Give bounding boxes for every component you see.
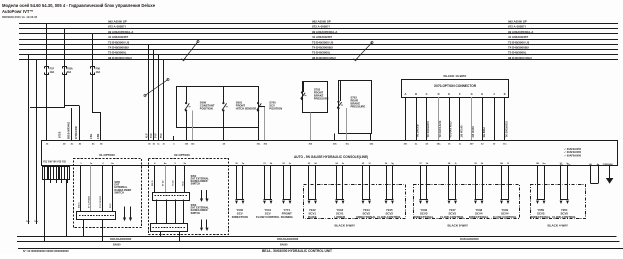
svg-text:POSITION: POSITION bbox=[269, 107, 282, 111]
wire S091 to console bbox=[223, 111, 225, 140]
svg-text:972 A-00087 I: 972 A-00087 I bbox=[508, 25, 526, 29]
ground symbol right bbox=[609, 166, 611, 178]
X2 mid wire x183.7 bbox=[183, 200, 185, 224]
svg-text:X2-OPTION: X2-OPTION bbox=[174, 153, 190, 157]
wire drop cluster x158 bbox=[158, 55, 160, 141]
svg-text:3B: 3B bbox=[536, 163, 539, 165]
wire S702 down bbox=[302, 100, 304, 113]
svg-text:34b: 34b bbox=[369, 142, 373, 145]
svg-text:PRESSURE: PRESSURE bbox=[351, 105, 366, 109]
jog S700 to aux bbox=[258, 106, 265, 108]
footer separator bbox=[18, 248, 623, 250]
X2 mid wire x175.9 bbox=[175, 200, 177, 224]
X2 lower return arrow x207.0 bbox=[206, 220, 208, 228]
svg-text:10A: 10A bbox=[50, 71, 55, 74]
bus wire 5 (T3 D40/3000 U3) bbox=[19, 44, 618, 46]
connector group box BLACK 8-WAY at x413 bbox=[414, 185, 520, 219]
X2 wire to ground rail 2 bbox=[179, 231, 181, 241]
wire jog y108 left bbox=[30, 107, 64, 109]
svg-text:98 D40/3000 MGV: 98 D40/3000 MGV bbox=[312, 56, 336, 60]
X1 return arrow x124.5 bbox=[124, 207, 126, 218]
wire drop x28 from bus 7 to ground rail bbox=[28, 55, 30, 224]
connector group box BLACK 8-WAY at x303 bbox=[304, 185, 406, 219]
svg-text:T5 F: T5 F bbox=[161, 133, 163, 138]
svg-text:10A: 10A bbox=[96, 71, 101, 74]
X1 wire x91 bbox=[90, 166, 92, 212]
svg-text:X070-OPTION CONNECTOR: X070-OPTION CONNECTOR bbox=[434, 84, 477, 88]
svg-text:T4 D: T4 D bbox=[181, 181, 184, 186]
wire feed x64 bus2 to junction bbox=[64, 29, 66, 108]
cell stub 1 bbox=[44, 179, 46, 183]
svg-text:✓ 00AF0A0/00: ✓ 00AF0A0/00 bbox=[564, 154, 582, 157]
bus wire 4 (41 A00A00/307) bbox=[19, 39, 618, 41]
wire S700 to console bbox=[258, 111, 260, 140]
fuse F03A bbox=[63, 67, 67, 75]
X2 upper wire x154.7 bbox=[154, 166, 156, 193]
svg-text:992 A0505 SP: 992 A0505 SP bbox=[508, 20, 527, 24]
svg-text:41 A00A00/307: 41 A00A00/307 bbox=[312, 35, 333, 39]
svg-text:T5 D40/3000L: T5 D40/3000L bbox=[108, 51, 127, 55]
svg-text:D: D bbox=[438, 92, 440, 96]
svg-text:992 A0505 SP: 992 A0505 SP bbox=[312, 20, 331, 24]
svg-text:T4 C: T4 C bbox=[109, 203, 112, 208]
X2 lower return arrow x201.5 bbox=[201, 220, 203, 228]
cell stub 3 bbox=[56, 179, 58, 183]
stub pin x174 bbox=[173, 136, 175, 141]
svg-text:00-BAA000/0000: 00-BAA000/0000 bbox=[460, 238, 479, 241]
svg-text:SWITCH: SWITCH bbox=[191, 183, 201, 186]
gray wire S090 aux bbox=[192, 111, 194, 141]
connector group box BLACK 4-WAY at x531 bbox=[531, 185, 586, 219]
wire drop x36 from bus 8 to ground rail bbox=[36, 60, 38, 224]
svg-text:40 D4A/F A003: 40 D4A/F A003 bbox=[450, 121, 453, 138]
svg-text:T4 D40/3000BU: T4 D40/3000BU bbox=[312, 46, 333, 50]
svg-text:T40 D40/3 A003: T40 D40/3 A003 bbox=[439, 120, 442, 137]
wire S703 down bbox=[338, 109, 340, 133]
svg-text:12b: 12b bbox=[191, 143, 195, 145]
svg-text:X1-OPTION: X1-OPTION bbox=[99, 153, 115, 157]
svg-text:41 A00A00/307: 41 A00A00/307 bbox=[508, 35, 529, 39]
svg-text:T3 F: T3 F bbox=[151, 133, 153, 138]
X2 upper wire x175.1 bbox=[175, 166, 177, 193]
svg-text:RW29930,0000 1A -19-06-06: RW29930,0000 1A -19-06-06 bbox=[2, 15, 38, 19]
right end jumper loop bbox=[590, 166, 592, 184]
svg-text:4 Bb: 4 Bb bbox=[97, 133, 100, 139]
wire into S702 from box top bbox=[303, 81, 305, 92]
svg-text:972 B: 972 B bbox=[59, 131, 62, 138]
wire drop x101 to console bbox=[100, 113, 102, 141]
fuse F07 bbox=[45, 67, 49, 75]
svg-text:T40 D403/A003: T40 D403/A003 bbox=[427, 121, 430, 138]
cell stub 5 bbox=[67, 179, 69, 183]
band left cell 4 bbox=[60, 167, 65, 180]
X1 wire x81 bbox=[80, 166, 82, 212]
svg-text:Модели осей 54.60 54.30, 005 4: Модели осей 54.60 54.30, 005 4 - Гидравл… bbox=[2, 3, 156, 8]
box enclosing S702 bbox=[303, 82, 328, 113]
svg-text:SWITCH: SWITCH bbox=[114, 191, 124, 194]
ground rail wire 1 bbox=[17, 236, 617, 238]
svg-text:T3 C1/C302: T3 C1/C302 bbox=[100, 195, 102, 208]
X1 wire x103 bbox=[102, 166, 104, 212]
wire feed x47 bus1 to console bbox=[46, 24, 48, 141]
wire jog x93 to x101 bbox=[93, 112, 101, 114]
svg-text:0000-BAA000/0000: 0000-BAA000/0000 bbox=[110, 238, 132, 241]
wire S090 to console bbox=[186, 111, 188, 140]
svg-text:99 A00A005/30A-A: 99 A00A005/30A-A bbox=[312, 30, 338, 34]
svg-text:10b: 10b bbox=[34, 221, 38, 223]
bus wire 6 (T4 D40/3000BU) bbox=[19, 49, 618, 51]
svg-text:BLACK 8-WAY: BLACK 8-WAY bbox=[448, 224, 469, 228]
svg-text:RAISING: RAISING bbox=[281, 215, 294, 219]
wire into S703 from box top bbox=[340, 80, 342, 101]
box enclosing S703 bbox=[339, 81, 372, 134]
X2 upper return arrow x207.0 bbox=[206, 190, 208, 199]
svg-text:3m: 3m bbox=[542, 163, 545, 165]
switch S700 bbox=[257, 102, 263, 111]
svg-text:30b: 30b bbox=[333, 143, 337, 145]
wire into S091 from box top pin bbox=[223, 87, 225, 103]
fuse F06 bbox=[91, 67, 95, 75]
svg-text:C: C bbox=[426, 92, 428, 96]
svg-text:B: B bbox=[415, 92, 417, 96]
wire drop cluster x163 bbox=[163, 60, 165, 141]
svg-text:3f: 3f bbox=[369, 163, 371, 165]
cell stub 2 bbox=[50, 179, 52, 183]
wire drop x71 to console bbox=[71, 108, 73, 141]
hydraulic console band box bbox=[42, 141, 618, 166]
svg-text:FLOW CONTROL: FLOW CONTROL bbox=[256, 215, 280, 219]
jumper diagonal J1 on bus bbox=[184, 42, 199, 61]
svg-text:992 A0505 SP: 992 A0505 SP bbox=[108, 20, 127, 24]
svg-text:T4 D40/3000BU: T4 D40/3000BU bbox=[108, 46, 129, 50]
X2 upper return arrow x201.5 bbox=[201, 190, 203, 199]
svg-text:POSITION: POSITION bbox=[200, 107, 213, 111]
svg-text:0000-BAA000/0000: 0000-BAA000/0000 bbox=[277, 238, 299, 241]
svg-text:BLACK 8-WAY: BLACK 8-WAY bbox=[335, 224, 356, 228]
svg-text:BA000: BA000 bbox=[280, 243, 288, 246]
svg-text:T5 D40/3000L: T5 D40/3000L bbox=[312, 51, 331, 55]
svg-text:K: K bbox=[504, 92, 506, 96]
svg-text:PRESSURE: PRESSURE bbox=[314, 97, 329, 101]
svg-text:E: E bbox=[448, 92, 450, 96]
svg-text:Y01 Y06 Y04 Y03 Y02: Y01 Y06 Y04 Y03 Y02 bbox=[43, 161, 67, 164]
X1 wire to ground rail 2 bbox=[102, 220, 104, 242]
svg-text:T40 D403/A003: T40 D403/A003 bbox=[505, 121, 508, 138]
svg-text:N°: 00 0000000000 00000 00000: N°: 00 0000000000 00000 0000000000 bbox=[23, 249, 69, 253]
svg-text:4 Ba: 4 Ba bbox=[90, 133, 93, 139]
jumper diagonal J2 below bus bbox=[145, 80, 168, 96]
wire from cell1 to ground rail bbox=[44, 179, 46, 242]
svg-text:T4 F: T4 F bbox=[154, 133, 157, 138]
X2 upper wire x184.8 bbox=[184, 166, 186, 193]
svg-text:99 A00A005/30A-A: 99 A00A005/30A-A bbox=[508, 30, 534, 34]
X2 upper wire x165.1 bbox=[165, 166, 167, 193]
X2 mid wire x166.3 bbox=[166, 200, 168, 224]
ground rail wire 2 bbox=[17, 241, 620, 243]
svg-text:1-B 4F2-A5: 1-B 4F2-A5 bbox=[460, 125, 463, 138]
jumper diagonal J3 on bus bbox=[356, 43, 373, 61]
svg-text:BLACK 10-WAY: BLACK 10-WAY bbox=[444, 74, 468, 78]
switch S091 bbox=[222, 102, 228, 111]
svg-text:98 D40/3000 MGV: 98 D40/3000 MGV bbox=[108, 56, 132, 60]
bus wire 3 (99 A00A005/30A-A) bbox=[19, 33, 618, 35]
wire from cell5 to ground rail bbox=[66, 179, 68, 236]
X2 mid wire x156.6 bbox=[156, 200, 158, 224]
svg-text:97 C-F03A2: 97 C-F03A2 bbox=[88, 195, 91, 208]
wire drop cluster x153 bbox=[153, 50, 155, 141]
svg-text:AutoPowr IVT™: AutoPowr IVT™ bbox=[2, 9, 34, 14]
wire S703 box right to console bbox=[370, 133, 372, 140]
svg-text:AUTO - 5N GAUGE HYDRAULIC CONS: AUTO - 5N GAUGE HYDRAULIC CONSOLE(LINE) bbox=[294, 155, 368, 159]
gray wire below S703 bbox=[346, 108, 348, 141]
band left cell 2 bbox=[49, 167, 54, 180]
X1 connector strip bbox=[77, 212, 116, 220]
svg-text:T3 D40/3000 U3: T3 D40/3000 U3 bbox=[508, 40, 530, 44]
gray wire S700 aux bbox=[264, 107, 266, 141]
X1 wire to ground rail 1 bbox=[83, 220, 85, 236]
svg-text:G: G bbox=[471, 92, 473, 96]
svg-text:97 B1/C302: 97 B1/C302 bbox=[75, 126, 78, 139]
svg-text:T3 D40/3000 U3: T3 D40/3000 U3 bbox=[312, 40, 334, 44]
svg-text:97 D2: 97 D2 bbox=[163, 180, 165, 186]
svg-text:T4 D40/3000BU: T4 D40/3000BU bbox=[508, 46, 529, 50]
connector X070 box bbox=[402, 80, 509, 98]
bus wire 8 (98 D40/3000 MGV) bbox=[19, 59, 618, 61]
svg-text:3A: 3A bbox=[500, 162, 503, 165]
gray wire below S702 bbox=[310, 112, 312, 140]
band left cell 3 bbox=[54, 167, 59, 180]
svg-text:992 C: 992 C bbox=[78, 202, 80, 208]
bus wire 2 (972 A-00087 I) bbox=[19, 28, 618, 30]
X2 wire to ground rail 1 bbox=[160, 231, 162, 236]
wire into S090 from box top pin bbox=[186, 87, 188, 103]
band left cell 5 bbox=[65, 167, 70, 180]
svg-text:41 A00A00/307: 41 A00A00/307 bbox=[108, 35, 129, 39]
wire S703 box to console bbox=[334, 133, 336, 140]
svg-text:T1F/DGMU: T1F/DGMU bbox=[603, 164, 614, 166]
svg-text:41 F: 41 F bbox=[145, 133, 148, 138]
svg-text:HITCH SENSOR: HITCH SENSOR bbox=[236, 107, 256, 111]
svg-text:99 A00A005/30A-A: 99 A00A005/30A-A bbox=[108, 30, 134, 34]
wire into S700 from above bbox=[258, 88, 260, 102]
X1 wire x112.5 bbox=[112, 166, 114, 212]
svg-text:BE1A - 50/03/000 HYDRAULIC CON: BE1A - 50/03/000 HYDRAULIC CONTROL UNIT bbox=[262, 249, 332, 253]
svg-text:BLACK 4-WAY: BLACK 4-WAY bbox=[548, 224, 569, 228]
bus wire 1 (992 A0505 SP) bbox=[19, 23, 618, 25]
svg-text:A: A bbox=[404, 92, 406, 96]
svg-text:30A: 30A bbox=[67, 71, 72, 74]
svg-text:BA000: BA000 bbox=[113, 243, 121, 246]
svg-text:98 D40/3000 MGV: 98 D40/3000 MGV bbox=[508, 56, 532, 60]
wire feed x93 bus3 bbox=[92, 34, 94, 113]
switch S702 bbox=[301, 92, 307, 100]
svg-text:14a B3A4: 14a B3A4 bbox=[483, 126, 486, 137]
svg-text:992 B-00F34A2: 992 B-00F34A2 bbox=[67, 121, 70, 139]
X2 lower connector strip bbox=[151, 224, 188, 232]
switch S090 bbox=[185, 102, 191, 111]
band left cell 1 bbox=[43, 167, 48, 180]
wire drop cluster x149 bbox=[148, 44, 150, 140]
X1 return arrow x130.5 bbox=[130, 207, 132, 218]
svg-text:T41 D4030B: T41 D4030B bbox=[417, 124, 420, 137]
svg-text:972 A-00087 I: 972 A-00087 I bbox=[312, 25, 330, 29]
svg-text:DIRECTIONAL: DIRECTIONAL bbox=[469, 215, 489, 219]
svg-text:T3 D1: T3 D1 bbox=[173, 179, 175, 186]
switch S703 bbox=[337, 101, 343, 109]
wire drop x79 to console bbox=[79, 106, 81, 141]
svg-text:DIRECTION: DIRECTION bbox=[232, 215, 248, 219]
X2 upper connector strip bbox=[153, 193, 190, 201]
cell stub 4 bbox=[61, 179, 63, 183]
svg-text:972 A-00087 I: 972 A-00087 I bbox=[108, 25, 126, 29]
wire jog y106 bbox=[64, 105, 80, 107]
svg-text:T3 D40/3000 U3: T3 D40/3000 U3 bbox=[108, 40, 130, 44]
svg-text:H: H bbox=[481, 92, 483, 96]
svg-text:992 D: 992 D bbox=[152, 180, 154, 186]
svg-text:3-B 4F2A5: 3-B 4F2A5 bbox=[472, 126, 475, 138]
box enclosing S090 S091 bbox=[177, 87, 259, 128]
svg-text:SWITCH: SWITCH bbox=[191, 212, 201, 215]
svg-text:T5 D40/3000L: T5 D40/3000L bbox=[508, 51, 527, 55]
bus wire 7 (T5 D40/3000L) bbox=[19, 54, 618, 56]
